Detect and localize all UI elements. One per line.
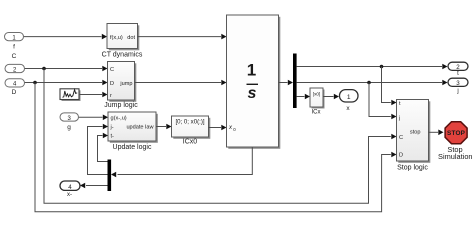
- block ICx0: [172, 116, 209, 137]
- outport 2 (t): [448, 62, 468, 71]
- svg-text:[x0]: [x0]: [313, 92, 320, 97]
- arrowhead into ICx0: [166, 124, 171, 130]
- wire jump: Jump logic to integrator: [135, 82, 222, 84]
- wire j: mux to outport3: [297, 82, 442, 84]
- svg-text:jump: jump: [119, 81, 132, 87]
- svg-text:update law: update law: [126, 125, 154, 131]
- svg-text:4: 4: [68, 184, 72, 191]
- svg-text:s: s: [248, 85, 257, 102]
- arrowhead into outport1: [334, 94, 339, 100]
- ICx0 shadow: [173, 118, 210, 139]
- svg-text:j-: j-: [110, 125, 114, 131]
- svg-text:3: 3: [456, 80, 460, 87]
- svg-text:ICx: ICx: [312, 109, 321, 115]
- arrowhead into Stop logic j: [391, 114, 396, 120]
- arrowhead into integrator x0: [221, 125, 226, 131]
- block Stop logic: [397, 100, 429, 162]
- wire t: mux to outport2: [297, 66, 442, 68]
- Stop logic shadow: [398, 101, 430, 163]
- svg-text:D: D: [399, 153, 403, 159]
- arrowhead into Update logic g: [103, 115, 108, 121]
- arrowhead into outport2: [442, 64, 447, 70]
- inport 4 (D): [5, 79, 25, 88]
- block ICx: [310, 88, 323, 107]
- block Stop Simulation (STOP sign): [445, 122, 467, 144]
- wire t branch to Stop logic: [382, 67, 391, 103]
- arrowhead into ICx: [305, 94, 310, 100]
- wire r to Jump logic: [79, 94, 102, 96]
- svg-text:Update logic: Update logic: [113, 144, 152, 151]
- block CT dynamics: [107, 24, 138, 49]
- Jump logic shadow: [109, 63, 136, 102]
- svg-text:C: C: [12, 53, 17, 60]
- arrowhead into Jump logic D: [102, 80, 107, 86]
- node junction on D wire: [33, 81, 37, 85]
- wire j-: demux to Update logic: [88, 127, 108, 175]
- arrowhead into Stop logic t: [391, 100, 396, 106]
- arrowhead into mux: [288, 80, 293, 86]
- CT dynamics shadow: [109, 25, 140, 50]
- wire stop: Stop logic to Stop Simulation: [429, 131, 439, 133]
- arrowhead into Stop logic C: [391, 134, 396, 140]
- wire x: mux to ICx: [297, 96, 305, 98]
- wire f: inport1 to CT dynamics: [24, 36, 102, 38]
- ICx shadow: [312, 90, 325, 109]
- wire j branch to Stop logic: [369, 83, 391, 117]
- random source block (r): [60, 89, 79, 100]
- svg-text:g(x-,u): g(x-,u): [111, 116, 127, 122]
- node junction on j wire: [367, 81, 371, 85]
- arrowhead into Jump logic C: [102, 66, 107, 72]
- block integrator 1/s: [227, 15, 279, 147]
- svg-text:g: g: [67, 124, 71, 131]
- demux bar: [108, 160, 112, 192]
- svg-text:Simulation: Simulation: [438, 152, 473, 161]
- svg-text:j: j: [398, 115, 400, 121]
- arrowhead into Update logic j-: [103, 124, 108, 130]
- svg-text:STOP: STOP: [447, 130, 466, 137]
- svg-text:j: j: [456, 88, 458, 94]
- arrowhead into demux (leftwards): [111, 172, 116, 178]
- arrowhead into outport3: [442, 80, 447, 86]
- arrowhead into integrator in1: [221, 34, 226, 40]
- arrowhead into CT dynamics: [102, 34, 107, 40]
- mux bar: [293, 54, 297, 109]
- wire state feedback from integrator bottom: [118, 147, 253, 175]
- inport 1 (f): [5, 33, 24, 42]
- wire dot: CT dynamics to integrator: [138, 36, 222, 38]
- svg-text:C: C: [110, 67, 114, 73]
- arrowhead into Jump logic r: [102, 92, 107, 98]
- Update logic shadow: [110, 114, 158, 143]
- svg-text:t-: t-: [111, 134, 115, 140]
- svg-text:1: 1: [347, 94, 351, 101]
- arrowhead into integrator in2: [221, 80, 226, 86]
- svg-text:dot: dot: [127, 35, 135, 41]
- integrator shadow: [228, 17, 280, 149]
- svg-text:Jump logic: Jump logic: [104, 102, 138, 109]
- svg-text:[0; 0; x0(:)]: [0; 0; x0(:)]: [175, 118, 204, 125]
- svg-text:1: 1: [247, 61, 256, 80]
- wire C: inport2 to Jump logic: [25, 68, 103, 70]
- arrowhead into Stop Simulation: [438, 130, 443, 136]
- random source block shadow: [62, 90, 81, 101]
- outport 3 (j): [448, 78, 468, 87]
- wire x-: demux to outport4: [86, 185, 108, 187]
- node junction on t wire: [380, 65, 384, 69]
- outport 4 (x-): [60, 181, 80, 191]
- svg-text:x-: x-: [67, 192, 72, 198]
- svg-text:r: r: [110, 93, 112, 99]
- svg-text:D: D: [12, 89, 17, 96]
- svg-text:f: f: [13, 44, 15, 51]
- wire g: inport3 to Update logic: [79, 116, 103, 118]
- wire ICx to outport1: [323, 96, 334, 98]
- outport 1 (x): [340, 90, 359, 102]
- wire t-: demux to Update logic: [98, 136, 108, 162]
- svg-text:CT dynamics: CT dynamics: [102, 52, 143, 59]
- wire D feedback to Stop logic: [35, 83, 391, 212]
- arrowhead into outport4 (leftwards): [80, 183, 85, 189]
- node junction on C wire: [42, 67, 46, 71]
- block Jump logic: [108, 62, 135, 101]
- svg-text:C: C: [399, 135, 403, 141]
- svg-text:f(x,u): f(x,u): [110, 35, 123, 41]
- svg-text:Stop logic: Stop logic: [397, 165, 428, 172]
- arrowhead into Update logic t-: [103, 133, 108, 139]
- svg-text:D: D: [110, 81, 114, 87]
- inport 3 (g): [60, 113, 79, 122]
- wire update law: Update logic to ICx0: [156, 126, 166, 128]
- wire integrator out to mux: [279, 82, 288, 84]
- svg-text:stop: stop: [410, 129, 421, 135]
- wire C feedback to Stop logic: [44, 69, 391, 204]
- svg-text:ICx0: ICx0: [183, 138, 198, 145]
- wire ICx0 to integrator x0: [209, 127, 222, 129]
- inport 2 (C): [5, 64, 25, 73]
- arrowhead into Stop logic D: [391, 152, 396, 158]
- block Update logic: [108, 112, 156, 141]
- wire D: inport4 to Jump logic: [25, 82, 103, 84]
